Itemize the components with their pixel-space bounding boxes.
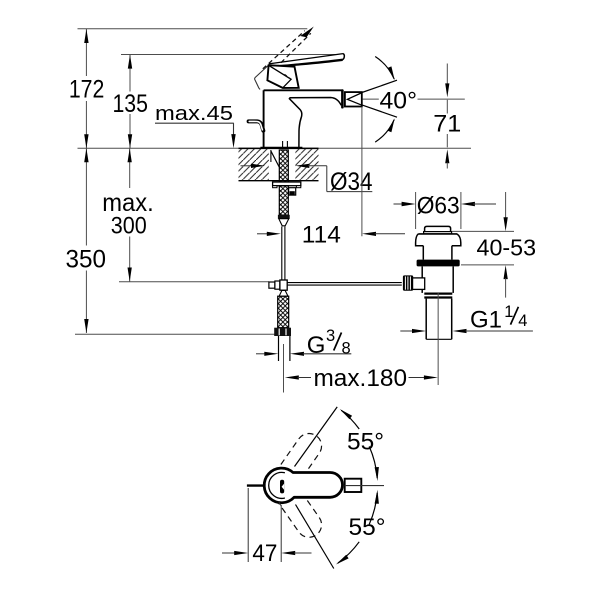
svg-text:8: 8 bbox=[342, 340, 351, 358]
horizontal pop-up rod bbox=[287, 282, 402, 284]
handle base wedge bbox=[267, 65, 298, 88]
lever slot mark bbox=[280, 480, 284, 494]
dashed raised lever bbox=[263, 31, 305, 69]
dimension 71 line bbox=[446, 64, 448, 85]
dimension 172 line bbox=[85, 29, 87, 76]
dimension 114 bbox=[257, 233, 268, 235]
svg-text:Ø34: Ø34 bbox=[330, 168, 373, 196]
handle top view solid outline bbox=[264, 468, 342, 503]
handle base inner ring bbox=[269, 472, 285, 498]
svg-text:G: G bbox=[307, 332, 326, 359]
rod knob box bbox=[412, 278, 425, 290]
svg-text:172: 172 bbox=[69, 76, 105, 104]
deck hatched section left bbox=[239, 149, 270, 180]
body inner curve bbox=[289, 98, 302, 148]
drain flange bbox=[418, 233, 457, 235]
spray cone lines bbox=[362, 80, 397, 92]
inclined line 55 up bbox=[295, 407, 338, 467]
svg-text:350: 350 bbox=[66, 245, 107, 273]
55 arc upper bbox=[341, 410, 359, 429]
dimension max.180 bbox=[285, 375, 299, 379]
svg-text:55°: 55° bbox=[347, 428, 384, 455]
mounting bracket bbox=[289, 188, 296, 195]
dimension max.300 line bbox=[129, 148, 131, 188]
deck hatched section right bbox=[295, 149, 318, 180]
dimension 350 line bbox=[85, 148, 87, 245]
drain seal ring bbox=[417, 260, 460, 267]
dimension G1 1/4 arrow bbox=[453, 329, 467, 333]
mounting hole wedge bbox=[271, 151, 279, 167]
svg-text:47: 47 bbox=[252, 541, 277, 567]
drain body bbox=[421, 266, 423, 293]
dimension 47 arrows bbox=[222, 552, 235, 554]
svg-text:Ø63: Ø63 bbox=[417, 192, 460, 219]
dashed handle position up 55 bbox=[262, 429, 327, 506]
wire reference line (lever top level y=54.6) bbox=[121, 54, 336, 56]
inclined line 55 down bbox=[296, 505, 334, 569]
svg-text:4: 4 bbox=[518, 312, 527, 330]
svg-text:135: 135 bbox=[112, 90, 148, 118]
svg-text:max.180: max.180 bbox=[314, 365, 408, 392]
spray centerline bbox=[363, 98, 379, 100]
faucet body outline bbox=[264, 90, 343, 148]
mounting flange washer bbox=[273, 182, 301, 186]
47 extension lines bbox=[247, 488, 249, 562]
knurled knob bbox=[403, 275, 413, 290]
dimension G3/8 arrows bbox=[256, 353, 266, 355]
svg-text:40°: 40° bbox=[380, 87, 418, 114]
dimension O34 arrows bbox=[241, 165, 253, 167]
svg-text:1: 1 bbox=[504, 303, 513, 321]
spout underside curve bbox=[289, 98, 341, 106]
dimension 135 line bbox=[129, 55, 131, 92]
drain joint rings bbox=[424, 293, 452, 295]
wire extension line rod level (max.300) bbox=[119, 281, 269, 283]
rod stub top view bbox=[247, 484, 265, 486]
dashed handle position down 55 bbox=[262, 465, 327, 542]
threaded shank upper bbox=[279, 150, 288, 182]
aerator top view box bbox=[345, 479, 362, 492]
drain neck bbox=[422, 246, 424, 260]
hose taper below connector bbox=[279, 290, 288, 296]
wire top reference line (raised lever tip level y=29) bbox=[78, 28, 308, 30]
wire extension line hose end level (350) bbox=[75, 333, 275, 335]
drain pop-up cap bbox=[425, 226, 451, 231]
rod connector on hose bbox=[269, 282, 275, 288]
aerator box bbox=[345, 92, 362, 106]
lever (solid) bbox=[269, 54, 343, 64]
hose end nut G3/8 bbox=[274, 328, 291, 336]
G3/8 thread stub bbox=[278, 336, 280, 361]
shank taper bbox=[279, 219, 289, 226]
svg-text:max.45: max.45 bbox=[155, 102, 233, 125]
centerline top view bbox=[345, 485, 384, 487]
aerator inner cone bbox=[347, 93, 361, 105]
braided hose section bbox=[278, 296, 289, 328]
threaded shank lower bbox=[279, 186, 288, 215]
flexible hose lines bbox=[281, 227, 283, 281]
shank end nut bbox=[278, 215, 290, 219]
svg-text:300: 300 bbox=[111, 212, 147, 239]
svg-text:40-53: 40-53 bbox=[477, 235, 537, 261]
drain centerline bbox=[437, 293, 439, 385]
wire deck surface line bbox=[78, 147, 472, 149]
spout end cap bbox=[341, 91, 344, 108]
handle pivot rotated outline (thin) bbox=[255, 65, 269, 89]
svg-text:71: 71 bbox=[433, 110, 461, 137]
svg-text:G1: G1 bbox=[470, 306, 502, 333]
svg-text:114: 114 bbox=[302, 222, 341, 249]
svg-text:55°: 55° bbox=[349, 514, 386, 541]
svg-text:3: 3 bbox=[326, 327, 335, 345]
55 arc lower bbox=[369, 493, 377, 525]
40 deg angle arc bbox=[375, 57, 394, 80]
drain tailpipe bbox=[425, 299, 427, 340]
O63 extension lines bbox=[415, 192, 417, 229]
dimension O63 arrows bbox=[394, 203, 404, 205]
40-53 extension lines bbox=[452, 230, 514, 232]
hose centerline bbox=[283, 344, 285, 393]
dimension 40-53 arrows bbox=[505, 192, 507, 218]
pop-up knob on body bbox=[249, 121, 264, 130]
supply pipes inside body bbox=[282, 141, 284, 148]
